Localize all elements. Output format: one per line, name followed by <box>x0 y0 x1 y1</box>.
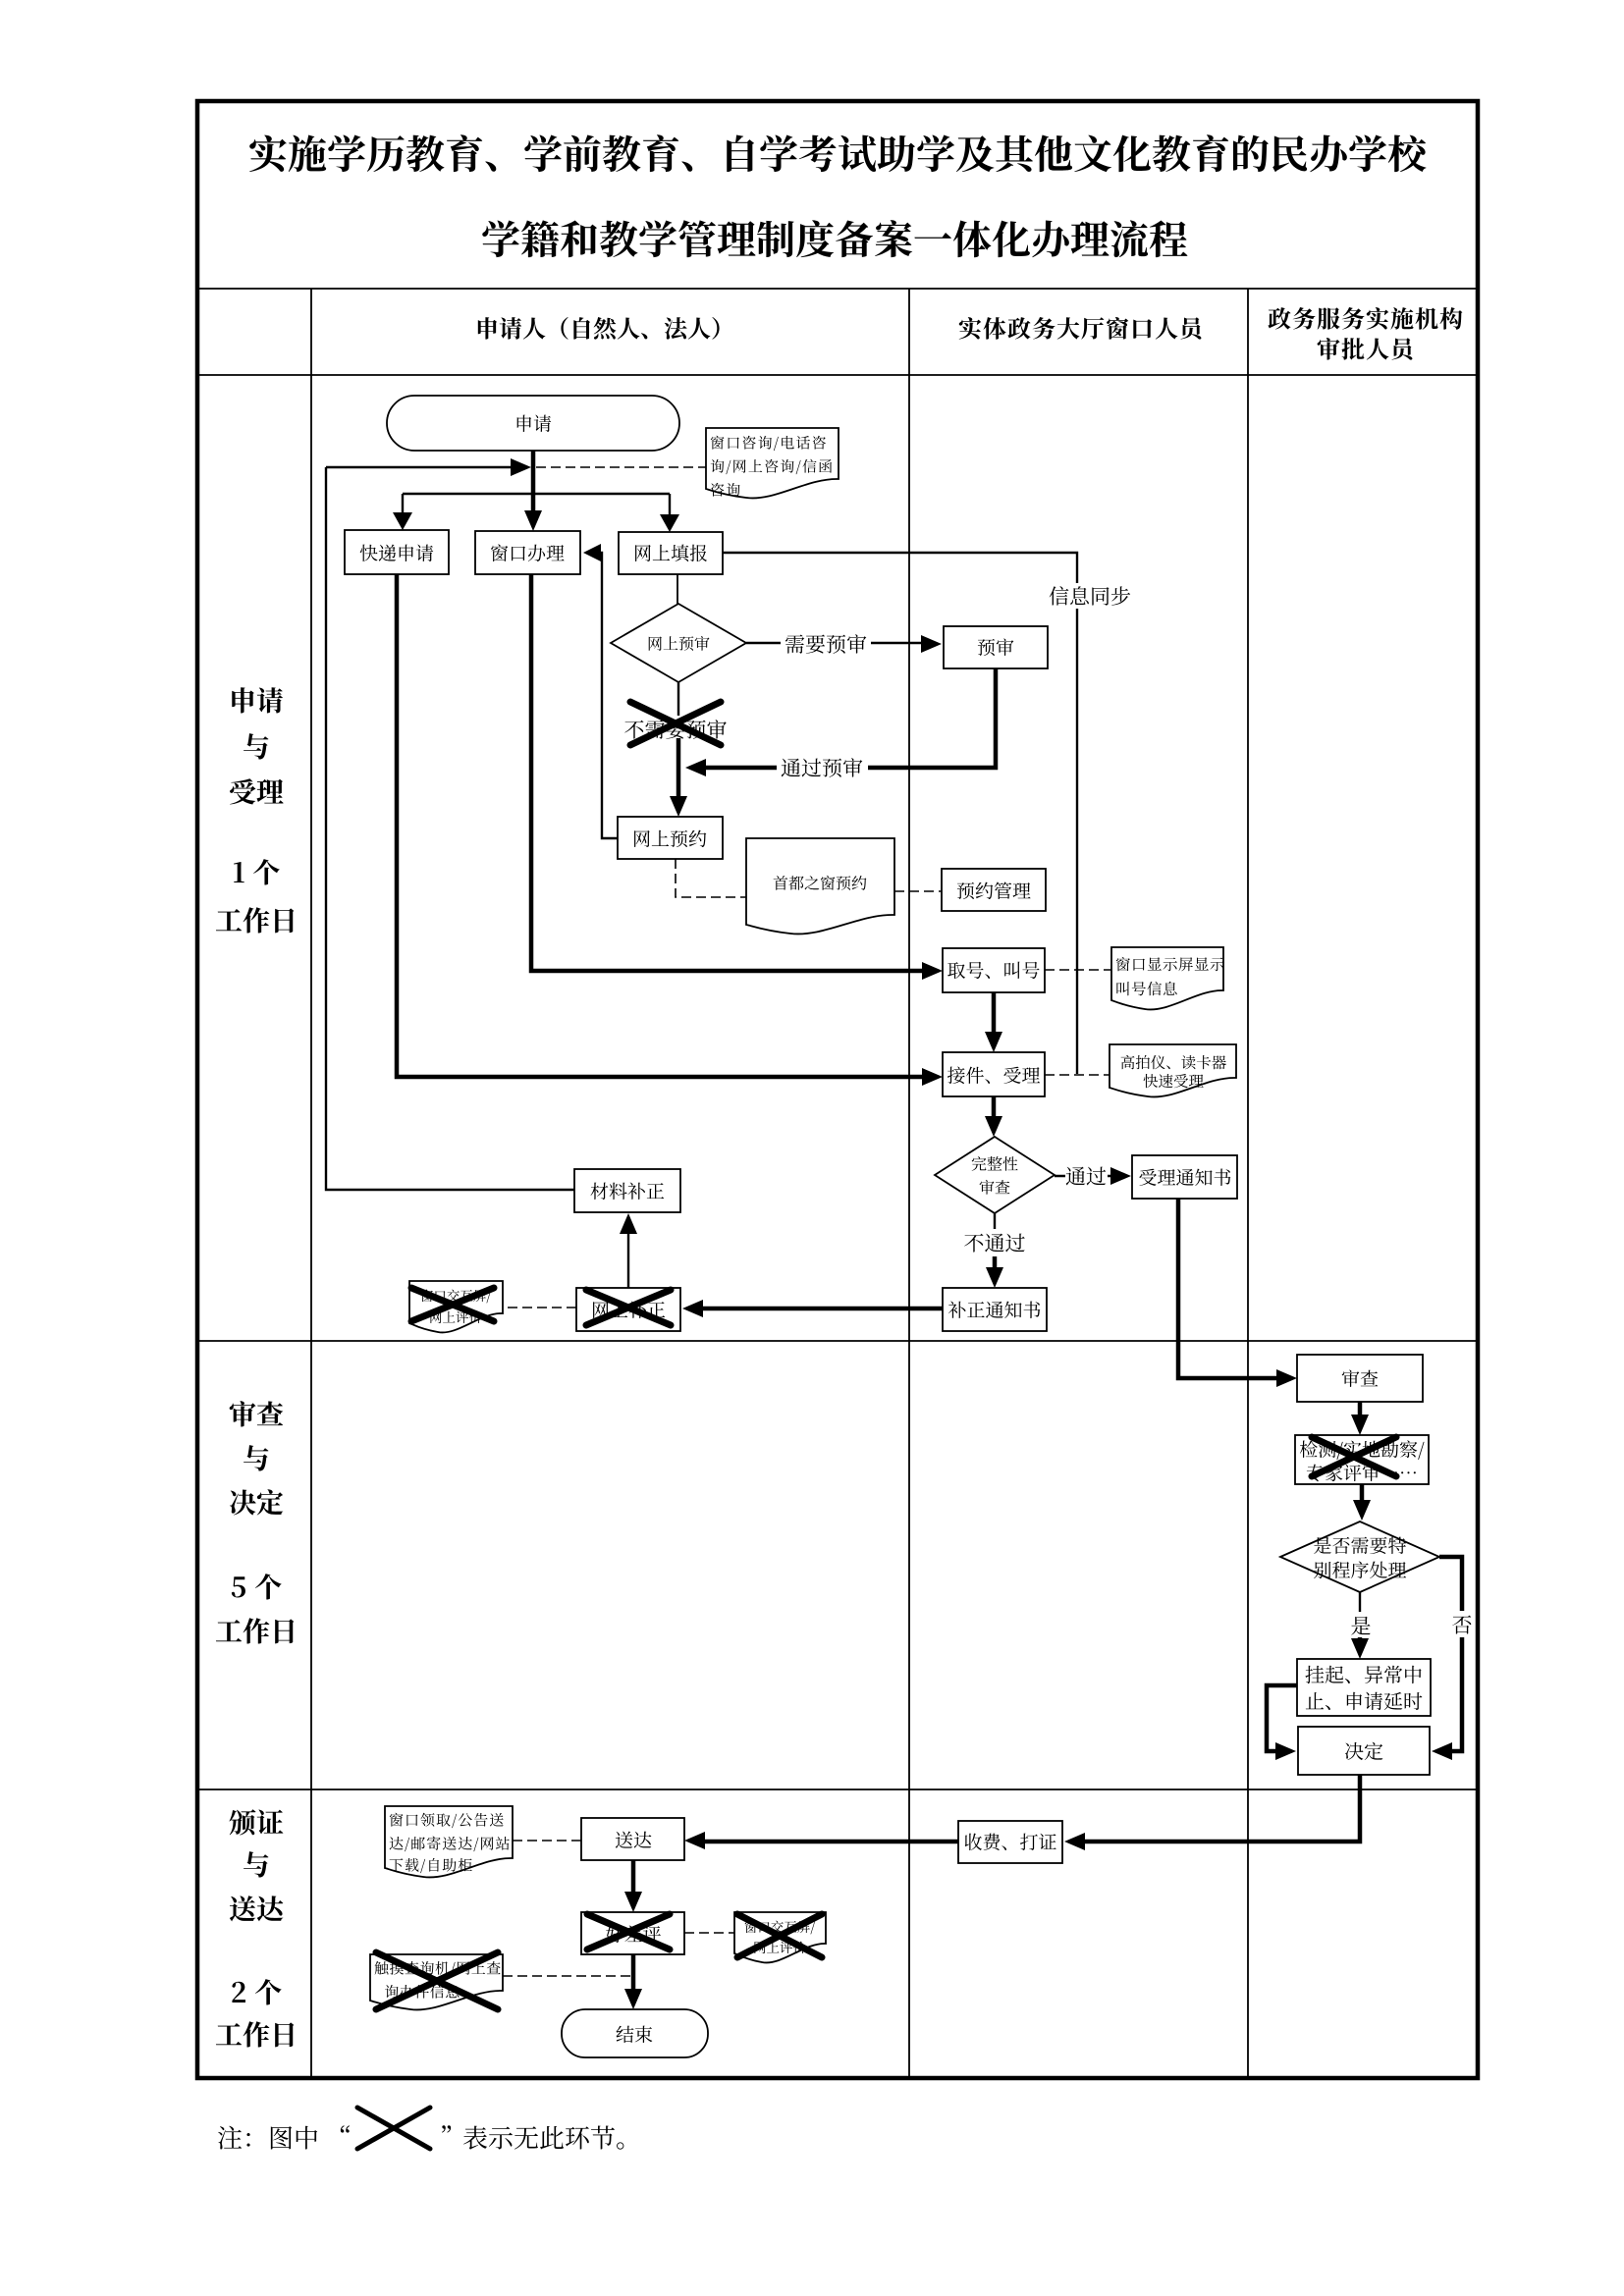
svg-text:通过: 通过 <box>1065 1161 1107 1191</box>
wire: 收费打证 left to 送达 (thick) <box>703 1840 958 1844</box>
process 收费、打证 <box>958 1821 1062 1863</box>
svg-text:结束: 结束 <box>616 2021 653 2048</box>
svg-text:接件、受理: 接件、受理 <box>947 1062 1040 1089</box>
svg-text:送达: 送达 <box>615 1827 652 1853</box>
wire: crossed box up to 材料补正 <box>627 1227 629 1288</box>
process 审查 <box>1297 1355 1423 1402</box>
decision 完整性审查 <box>935 1137 1055 1213</box>
svg-text:表示无此环节。: 表示无此环节。 <box>462 2119 641 2156</box>
wire: 快递申请 down then right to 接件、受理 (thick) <box>397 574 922 1077</box>
svg-text:询/网上咨询/信函: 询/网上咨询/信函 <box>710 456 834 477</box>
decision 是否需要特别程序处理 <box>1280 1522 1439 1592</box>
svg-text:止、申请延时: 止、申请延时 <box>1305 1686 1423 1715</box>
dashed wire to crossed doc <box>503 1307 576 1308</box>
svg-text:工作日: 工作日 <box>215 2014 298 2054</box>
wire: 受理通知书 down, right into 审查 (thick) <box>1178 1199 1276 1378</box>
wire: 通过预审 from 预审 back to main line <box>706 668 996 768</box>
wire: 信息同步 from 网上填报 to 接件 area <box>723 553 1077 1074</box>
svg-text:下载/自助柜: 下载/自助柜 <box>389 1855 473 1876</box>
crossed document 窗口交互屏/网上评价 <box>409 1281 503 1332</box>
svg-text:工作日: 工作日 <box>215 1611 298 1650</box>
svg-text:受理通知书: 受理通知书 <box>1138 1164 1231 1191</box>
process 挂起、异常中止、申请延时 <box>1297 1659 1431 1716</box>
wire: 取号 down to 接件、受理 (thick) <box>992 992 997 1041</box>
svg-text:5 个: 5 个 <box>231 1567 282 1606</box>
wire: 网上预约 loop to 窗口办理 <box>586 553 618 838</box>
dashed wire: 接件 to scanner doc <box>1045 1074 1110 1076</box>
document 高拍仪、读卡器快速受理 <box>1110 1044 1236 1096</box>
svg-text:审查: 审查 <box>1341 1365 1379 1392</box>
wire: down to decision (thick) <box>1360 1484 1365 1509</box>
svg-text:审查: 审查 <box>979 1176 1010 1199</box>
svg-text:1 个: 1 个 <box>233 852 281 891</box>
svg-text:窗口领取/公告送: 窗口领取/公告送 <box>389 1810 505 1831</box>
svg-text:通过预审: 通过预审 <box>781 753 863 782</box>
svg-text:叫号信息: 叫号信息 <box>1115 978 1178 999</box>
wire: 送达 down to crossed 好差评 (thick) <box>631 1860 636 1900</box>
svg-text:否: 否 <box>1452 1610 1473 1639</box>
svg-text:不通过: 不通过 <box>964 1228 1026 1257</box>
svg-text:别程序处理: 别程序处理 <box>1313 1557 1406 1583</box>
wire: 窗口办理 down then right to 取号、叫号 (thick) <box>531 574 922 971</box>
process 预审 <box>944 626 1048 668</box>
wire: 材料补正 loop left and up to junction <box>326 467 574 1190</box>
outer border <box>197 101 1478 2078</box>
dashed wire: doc to 预约管理 <box>894 890 942 892</box>
svg-text:是否需要特: 是否需要特 <box>1313 1532 1406 1559</box>
svg-text:快速受理: 快速受理 <box>1143 1070 1205 1092</box>
svg-text:达/邮寄送达/网站: 达/邮寄送达/网站 <box>389 1834 512 1854</box>
wire: 否 path from diamond right down into 决定 (thick) <box>1439 1557 1462 1751</box>
svg-text:学籍和教学管理制度备案一体化办理流程: 学籍和教学管理制度备案一体化办理流程 <box>481 210 1188 266</box>
process 送达 (underlined) <box>581 1818 684 1860</box>
crossed process 检测/实地勘察/专家评审 <box>1295 1435 1429 1484</box>
wire: 挂起 left loop into 决定 (thick) <box>1267 1685 1297 1751</box>
svg-text:需要预审: 需要预审 <box>785 629 867 659</box>
svg-text:注：图中: 注：图中 <box>217 2119 319 2156</box>
svg-text:窗口显示屏显示: 窗口显示屏显示 <box>1115 953 1225 975</box>
svg-text:审批人员: 审批人员 <box>1317 331 1418 365</box>
document 窗口咨询/电话咨询/网上咨询/信函咨询 <box>706 428 839 498</box>
svg-text:收费、打证: 收费、打证 <box>963 1829 1056 1855</box>
process 材料补正 <box>574 1169 680 1212</box>
svg-text:2 个: 2 个 <box>231 1972 282 2011</box>
svg-text:咨询: 咨询 <box>710 480 741 501</box>
table grid lines <box>199 289 1476 1789</box>
wire: 是 down to 挂起 box <box>1359 1592 1361 1612</box>
svg-text:快递申请: 快递申请 <box>359 540 434 566</box>
process 预约管理 <box>942 869 1046 911</box>
wire: 补正通知书 left to crossed 网上补正 (thick) <box>701 1307 943 1311</box>
wire: 网上填报 to diamond 网上预审 <box>677 574 678 604</box>
svg-text:申请人（自然人、法人）: 申请人（自然人、法人） <box>475 310 734 345</box>
document 窗口领取/公告送达/邮寄送达/网站下载/自助柜 <box>385 1806 513 1877</box>
wire: 审查 down (thick) <box>1358 1402 1363 1423</box>
svg-text:实施学历教育、学前教育、自学考试助学及其他文化教育的民办学校: 实施学历教育、学前教育、自学考试助学及其他文化教育的民办学校 <box>248 125 1430 181</box>
svg-text:网上填报: 网上填报 <box>633 540 708 566</box>
process 接件、受理 <box>943 1052 1045 1096</box>
svg-text:送达: 送达 <box>229 1889 286 1928</box>
document 首都之窗预约 <box>746 838 894 934</box>
wire: 决定 down then left to 收费、打证 (thick) <box>1083 1775 1360 1842</box>
svg-text:取号、叫号: 取号、叫号 <box>947 957 1040 984</box>
svg-text:与: 与 <box>243 1438 270 1477</box>
decision 网上预审 <box>611 604 746 682</box>
svg-text:与: 与 <box>243 1844 270 1884</box>
svg-text:决定: 决定 <box>229 1482 284 1522</box>
document 窗口显示屏显示叫号信息 <box>1111 947 1223 1009</box>
svg-text:预审: 预审 <box>977 634 1014 661</box>
process 受理通知书 <box>1132 1155 1237 1199</box>
svg-text:完整性: 完整性 <box>971 1152 1018 1175</box>
process 窗口办理 <box>475 531 580 574</box>
crossed document 窗口交互屏/网上评价 <box>734 1912 826 1962</box>
crossed document 触摸查询机/网上查询办件信息 <box>370 1954 503 2009</box>
start terminator 申请 <box>387 396 679 451</box>
process 决定 <box>1298 1727 1430 1775</box>
wire: 不需要预审 down (crossed out) <box>677 682 679 736</box>
svg-text:挂起、异常中: 挂起、异常中 <box>1305 1660 1423 1688</box>
crossed process 好差评 <box>581 1912 684 1954</box>
dashed wire: crossed doc to main line <box>503 1975 633 1977</box>
wire: 申请 down to 窗口办理 (thick) <box>531 451 536 520</box>
process 快递申请 <box>345 530 449 574</box>
wire: down to 网上预约 (thick) <box>677 738 681 805</box>
svg-text:实体政务大厅窗口人员: 实体政务大厅窗口人员 <box>958 310 1207 345</box>
svg-text:审查: 审查 <box>229 1394 284 1433</box>
svg-text:受理: 受理 <box>229 772 284 811</box>
dashed wire to delivery doc <box>513 1840 581 1842</box>
svg-text:网上预审: 网上预审 <box>647 632 710 655</box>
wire: 需要预审 to 预审 <box>746 642 921 644</box>
svg-text:窗口办理: 窗口办理 <box>490 540 565 566</box>
svg-text:颁证: 颁证 <box>229 1802 284 1842</box>
svg-text:申请: 申请 <box>514 410 552 437</box>
process 网上填报 <box>619 532 723 574</box>
wire: branch bar <box>403 494 670 518</box>
svg-text:决定: 决定 <box>1344 1736 1383 1765</box>
dashed wire: junction to consult document <box>536 466 706 468</box>
svg-text:材料补正: 材料补正 <box>590 1178 665 1204</box>
svg-text:窗口咨询/电话咨: 窗口咨询/电话咨 <box>710 433 828 454</box>
svg-text:首都之窗预约: 首都之窗预约 <box>773 872 867 894</box>
svg-text:是: 是 <box>1351 1611 1372 1640</box>
svg-text:“: “ <box>326 2119 352 2156</box>
dashed wire to crossed doc 窗口交互屏/网上评价 <box>684 1932 734 1934</box>
svg-text:申请: 申请 <box>229 680 284 720</box>
wire: 通过 to 受理通知书 <box>1055 1175 1110 1177</box>
svg-text:网上预约: 网上预约 <box>632 826 707 852</box>
svg-text:与: 与 <box>243 726 270 766</box>
process 网上预约 <box>618 817 723 859</box>
svg-text:信息同步: 信息同步 <box>1049 581 1131 611</box>
svg-text:补正通知书: 补正通知书 <box>947 1297 1041 1323</box>
dashed wire: 网上预约 to 首都之窗预约 doc <box>676 859 746 897</box>
svg-text:政务服务实施机构: 政务服务实施机构 <box>1268 300 1464 335</box>
wire: down to 结束 (thick) <box>631 1954 636 1998</box>
svg-text:工作日: 工作日 <box>215 900 298 939</box>
dashed wire: 取号 to display doc <box>1045 969 1111 971</box>
wire: 接件 down to diamond (thick) <box>992 1096 997 1125</box>
wire: loop return from 材料补正 into junction (arrow right) <box>326 466 513 468</box>
crossed process 网上补正 <box>576 1288 680 1331</box>
process 补正通知书 <box>943 1288 1047 1331</box>
end terminator 结束 <box>562 2009 708 2057</box>
process 取号、叫号 <box>943 948 1045 992</box>
svg-text:预约管理: 预约管理 <box>956 878 1031 904</box>
wire: 不通过 down to 补正通知书 <box>994 1213 996 1229</box>
